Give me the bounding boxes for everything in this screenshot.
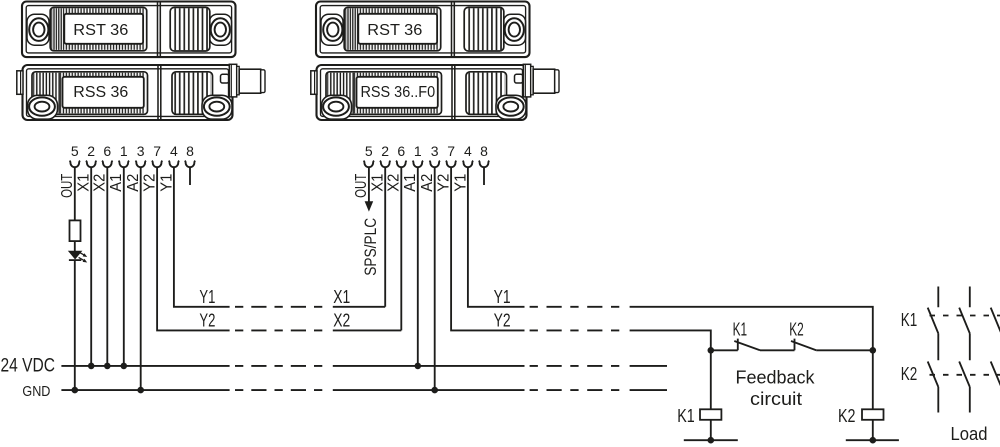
svg-text:K1: K1 [901,309,918,330]
svg-text:K2: K2 [789,318,804,339]
svg-text:circuit: circuit [750,388,802,409]
svg-text:Y1: Y1 [199,287,215,307]
svg-text:X1: X1 [333,287,350,307]
svg-text:24 VDC: 24 VDC [1,356,56,377]
svg-text:SPS/PLC: SPS/PLC [361,218,380,276]
svg-text:Y2: Y2 [494,311,511,331]
svg-text:K2: K2 [901,363,918,384]
svg-text:Y2: Y2 [199,311,215,331]
svg-text:Feedback: Feedback [736,366,816,387]
svg-text:Load: Load [951,423,988,444]
svg-text:RSS 36..F0: RSS 36..F0 [360,84,435,101]
svg-text:X2: X2 [333,311,350,331]
svg-text:K1: K1 [677,405,695,426]
svg-text:RSS 36: RSS 36 [73,84,128,101]
svg-text:K1: K1 [733,318,748,339]
svg-text:K2: K2 [838,405,856,426]
svg-text:Y1: Y1 [494,287,511,307]
svg-text:GND: GND [22,383,50,400]
